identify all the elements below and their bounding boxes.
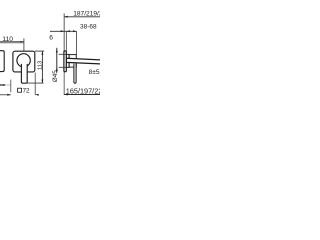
left cut-away side plate [0,51,4,72]
svg-text:110: 110 [2,36,13,43]
side view hub [69,55,76,68]
node label square 72 [18,88,30,95]
front view handle circle [17,54,30,67]
svg-text:6: 6 [49,35,53,42]
svg-text:113: 113 [37,60,43,70]
wire: cut dimension row at y85 [0,84,11,86]
wire: wall extension line lower (165 dim) [63,72,65,95]
wire: dimension line 6 and 38-68 [50,30,77,32]
front view plate [13,51,35,72]
wire: dimension line 165/197/229 [64,94,100,96]
wire: square-72 left extension [10,80,12,93]
front view handle stem [21,64,27,83]
side view sleeve [66,54,69,67]
wire: top extension to 113 [35,50,44,52]
svg-text:8±5°: 8±5° [89,68,100,76]
wire: square-72 right extension [34,73,36,96]
wire: diameter 45 extension top [59,53,67,55]
wire: bottom extension to 113 [27,82,44,84]
wire: dimension line 187/219/251 [64,16,100,18]
wire: diameter 45 extension bottom [59,66,67,68]
side view handle stem [74,64,76,84]
side view plate [64,51,66,72]
svg-text:187/219/251: 187/219/251 [73,11,100,18]
svg-text:38-68: 38-68 [80,23,97,30]
wire: 38-68 right extension [76,31,78,54]
wire: bottom dimension row left (cut) [0,94,39,96]
svg-text:165/197/229: 165/197/229 [66,86,100,95]
wire: wall extension line (187 dim) [63,13,65,51]
wire: dimension line 110 [0,41,24,44]
svg-text:Ø45: Ø45 [52,70,59,82]
wire: dimension line 113 [41,51,43,83]
svg-text:72: 72 [23,88,31,95]
wire: extension line at handle centre [23,38,25,54]
wire: dimension line diameter 45 [56,48,58,73]
wire: plate right extension [65,31,67,51]
side view lever arm [66,58,101,64]
